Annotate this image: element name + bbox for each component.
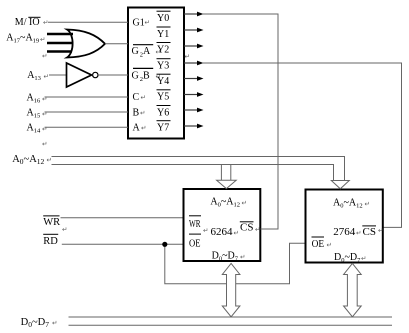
svg-text:↵: ↵ (203, 228, 208, 235)
svg-text:D0~D7: D0~D7 (21, 317, 50, 329)
svg-text:↵: ↵ (356, 230, 361, 237)
svg-text:↵: ↵ (43, 20, 48, 27)
svg-text:↵: ↵ (327, 242, 332, 249)
svg-text:B: B (143, 71, 150, 82)
svg-text:↵: ↵ (255, 227, 260, 234)
svg-text:↵: ↵ (185, 54, 190, 61)
wire A15 to B (45, 111, 129, 113)
svg-text:↵: ↵ (141, 95, 146, 102)
svg-text:Y5: Y5 (157, 92, 169, 103)
svg-text:M/: M/ (15, 17, 27, 28)
svg-text:2764: 2764 (333, 226, 356, 238)
output arrow Y3 (184, 61, 204, 66)
eprom 2764 box (306, 190, 383, 263)
svg-text:CS: CS (363, 226, 376, 238)
output arrow Y1 (184, 28, 204, 33)
or-gate input stub A19 (47, 50, 72, 52)
svg-text:↵: ↵ (52, 320, 57, 327)
output arrow Y5 (184, 92, 204, 97)
svg-text:↵: ↵ (365, 201, 370, 208)
svg-text:6264: 6264 (211, 226, 234, 238)
wire WR to 6264 (61, 217, 184, 219)
inverter U3 (67, 63, 92, 87)
svg-text:A: A (143, 46, 151, 57)
output arrow Y0 (184, 12, 204, 17)
svg-text:RD: RD (43, 236, 58, 247)
wire Y0 to 6264 CS (203, 14, 278, 229)
wire address bus upper line (52, 157, 345, 181)
block arrow 2764 data to bus (344, 263, 362, 316)
block arrow 6264 data to bus (222, 263, 240, 316)
svg-text:↵: ↵ (240, 254, 245, 261)
svg-text:G1: G1 (133, 18, 145, 29)
svg-text:G: G (132, 46, 139, 57)
svg-text:G: G (132, 71, 139, 82)
svg-text:Y6: Y6 (157, 107, 169, 118)
output arrow Y2 (184, 44, 204, 49)
svg-text:WR: WR (43, 217, 60, 228)
or-gate U2 (67, 30, 105, 58)
wire A16 to C (45, 96, 129, 98)
wire inverter to G2B (98, 74, 128, 76)
decoder U1 box (128, 8, 184, 139)
wire 6264 CS out (261, 228, 279, 230)
svg-text:↵: ↵ (42, 53, 47, 60)
svg-text:IO: IO (29, 17, 40, 28)
svg-text:↵: ↵ (141, 125, 146, 132)
svg-text:Y0: Y0 (157, 13, 169, 24)
svg-text:↵: ↵ (62, 227, 67, 234)
wire RD branch to 2764 OE (165, 243, 306, 283)
junction dot on RD (162, 242, 167, 247)
wire address bus lower line (52, 165, 334, 181)
data bus line lower (69, 324, 393, 326)
svg-text:WR: WR (189, 219, 201, 230)
svg-text:↵: ↵ (242, 200, 247, 207)
svg-text:C: C (133, 92, 140, 103)
svg-text:↵: ↵ (145, 20, 150, 27)
svg-text:D0~D7: D0~D7 (334, 252, 361, 264)
svg-text:↵: ↵ (40, 37, 45, 44)
svg-text:Y1: Y1 (157, 29, 169, 40)
svg-text:↵: ↵ (140, 110, 145, 117)
svg-text:↵: ↵ (44, 74, 49, 81)
svg-text:OE: OE (312, 239, 325, 250)
output arrow Y7 (184, 124, 204, 129)
svg-text:B: B (133, 107, 140, 118)
wire or-gate to G2A (105, 43, 128, 45)
wire RD to 6264 OE (62, 243, 184, 245)
output arrow Y6 (184, 108, 204, 113)
svg-text:Y7: Y7 (157, 123, 169, 134)
wire M/IO to G1 (48, 21, 128, 23)
svg-text:↵: ↵ (42, 141, 47, 148)
output arrow Y4 (184, 76, 204, 81)
or-gate input stub A17 (47, 33, 73, 35)
block arrow address bus into 6264 (217, 165, 237, 189)
svg-text:Y2: Y2 (157, 44, 169, 55)
data bus line upper (69, 316, 393, 318)
svg-text:↵: ↵ (47, 157, 52, 164)
wire A14 to A (45, 126, 129, 128)
svg-text:CS: CS (240, 221, 253, 233)
svg-text:Y3: Y3 (157, 61, 169, 72)
svg-text:D0~D7: D0~D7 (212, 251, 239, 263)
block arrow address bus into 2764 (331, 181, 349, 189)
svg-text:↵: ↵ (234, 230, 239, 237)
wire Y3 to 2764 CS (203, 63, 402, 227)
svg-text:OE: OE (189, 238, 201, 249)
svg-text:↵: ↵ (361, 256, 366, 263)
sram 6264 box (184, 189, 261, 261)
svg-text:↵: ↵ (378, 228, 383, 235)
svg-text:Y4: Y4 (157, 76, 169, 87)
wire A13 to inverter (49, 74, 67, 76)
svg-text:A: A (133, 123, 141, 134)
or-gate input stub A18 (47, 42, 74, 44)
